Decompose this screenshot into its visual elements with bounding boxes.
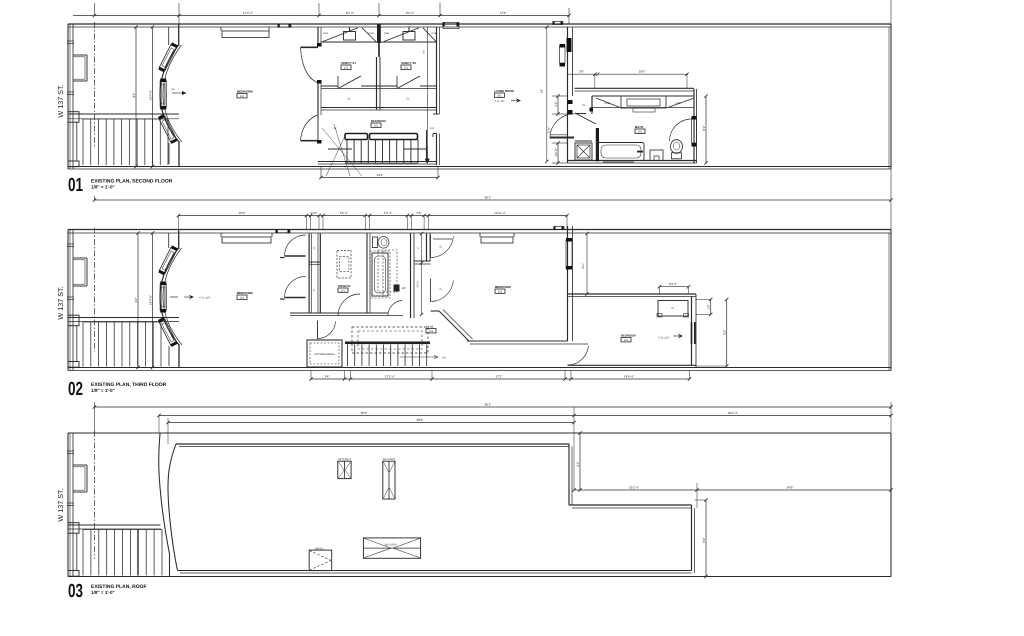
plan1 vanity cabinets band <box>321 41 437 43</box>
plan1 bath small cabinet <box>650 150 663 161</box>
plan2 pier mark top wall <box>554 227 564 230</box>
plan2 right lot wall <box>890 230 892 371</box>
plan2 hall lower wall <box>467 340 568 342</box>
plan1 CL wall lower <box>321 107 437 109</box>
svg-text:50 ½″: 50 ½″ <box>548 127 551 133</box>
bay lower window <box>158 317 178 347</box>
plan1 stair right wall <box>426 130 428 162</box>
plan2 stair dashed box <box>352 327 428 353</box>
plan1 bath closet CL <box>591 96 593 110</box>
svg-text:BATH: BATH <box>635 125 643 129</box>
plan2 stair arrow DN <box>400 356 438 358</box>
svg-text:C.A. 110°: C.A. 110° <box>659 337 670 340</box>
plan1 bottom dim 14'2 <box>321 177 438 179</box>
svg-text:UP: UP <box>333 127 337 130</box>
svg-text:CAB: CAB <box>604 102 609 105</box>
plan3 dim 50'6 lines <box>159 415 891 417</box>
plan3 right lot wall <box>890 433 892 577</box>
plan2 rear wall main house <box>567 226 569 341</box>
plan2 mid wall <box>290 312 388 314</box>
compass arrow <box>511 98 521 102</box>
bay window curved front <box>160 248 179 345</box>
svg-text:CL: CL <box>347 98 351 101</box>
plan2 window recess in top wall <box>220 233 222 237</box>
svg-text:56′1″: 56′1″ <box>485 195 493 199</box>
bay upper window <box>158 42 178 72</box>
svg-text:CAB: CAB <box>323 32 328 35</box>
plan2 interior stair treads <box>347 345 349 367</box>
plan1 CL diagonal doors <box>338 76 361 89</box>
bay centre window <box>160 284 166 310</box>
property dash-dot line <box>94 228 96 352</box>
plan1 dim extension lines <box>94 3 96 16</box>
plan1 rear wall of main house <box>567 27 569 96</box>
plan3 lot bottom line <box>68 576 891 578</box>
svg-text:3′6″: 3′6″ <box>579 70 585 74</box>
svg-text:SKYLIGHT: SKYLIGHT <box>385 543 398 546</box>
street wall (left facade) double line <box>67 24 69 169</box>
svg-text:LIVING ROOM: LIVING ROOM <box>494 89 514 93</box>
svg-text:CL 03: CL 03 <box>426 326 434 329</box>
svg-text:BEDROOM: BEDROOM <box>495 285 511 289</box>
stair newel box top <box>68 523 79 534</box>
svg-text:BEDROOM: BEDROOM <box>237 291 253 295</box>
plan2 vertical dim 15'4 1/2 <box>152 233 154 368</box>
svg-text:ROOM 02: ROOM 02 <box>338 284 351 288</box>
svg-text:01: 01 <box>68 175 83 196</box>
plan2 tub dashed surround <box>370 251 390 298</box>
plan2 wall between closets <box>414 260 431 262</box>
plan1 bottom wall centre <box>318 161 437 163</box>
plan2 closet divider <box>309 261 320 263</box>
street wall (left facade) double line <box>67 433 69 577</box>
plan2 vertical dim 9'2 <box>137 233 139 368</box>
svg-text:1/8″ = 1′-0″: 1/8″ = 1′-0″ <box>91 388 116 393</box>
property dash-dot line <box>94 22 96 148</box>
plan1 bath top dim <box>568 73 688 75</box>
svg-text:101: 101 <box>344 67 349 70</box>
plan2 wc dashed soffit <box>382 251 384 297</box>
bay upper window <box>158 245 178 275</box>
plan2 extension door arc <box>568 346 589 365</box>
svg-text:C.A. 10°: C.A. 10° <box>494 100 504 103</box>
stair left wall inner line <box>76 122 78 161</box>
property dash-dot line <box>94 431 96 559</box>
svg-text:30′4 ½″: 30′4 ½″ <box>728 411 739 415</box>
facade notch bump <box>73 54 87 56</box>
plan2 bottom lot line <box>68 367 891 369</box>
plan2 dim 8'2 extension <box>726 299 728 366</box>
svg-text:W 137 ST.: W 137 ST. <box>56 488 65 521</box>
compass arrow <box>184 295 194 299</box>
plan2 dim extension depth <box>586 234 588 295</box>
svg-text:15′6″: 15′6″ <box>239 211 247 215</box>
svg-text:101: 101 <box>429 330 434 333</box>
svg-text:VANITY 01: VANITY 01 <box>341 61 356 65</box>
plan2 closet door upper <box>430 235 432 259</box>
plan1 top dimension line <box>73 15 569 17</box>
svg-text:DN: DN <box>430 127 434 130</box>
plan1 vertical dim 9'2 <box>135 27 137 167</box>
plan2 stair hall wall <box>68 317 179 319</box>
svg-text:8′2″: 8′2″ <box>702 125 706 131</box>
plan1 wall right of vanities <box>436 27 438 114</box>
plan1 interior stair handrail bars <box>345 134 368 140</box>
plan2 door arc kitchen <box>317 321 319 340</box>
svg-text:VANITY 02: VANITY 02 <box>401 61 416 65</box>
plan1 stair hall wall <box>68 113 179 115</box>
plan3 dim 56'1 top <box>95 406 892 408</box>
svg-text:16′6″: 16′6″ <box>639 70 647 74</box>
svg-text:17′2″: 17′2″ <box>496 374 504 378</box>
plan1 window recess in top wall <box>220 27 222 31</box>
svg-text:02: 02 <box>68 379 83 400</box>
plan2 wc tag <box>394 285 400 292</box>
plan1 living room dim line <box>546 27 548 162</box>
svg-text:50′6″: 50′6″ <box>417 418 425 422</box>
svg-text:101: 101 <box>374 125 379 128</box>
svg-text:19′2 ½″: 19′2 ½″ <box>629 485 640 489</box>
plan2 extension right wall <box>691 297 693 366</box>
svg-text:4′4 ½″: 4′4 ½″ <box>384 211 393 215</box>
svg-text:BEDROOM: BEDROOM <box>621 334 636 338</box>
plan1 bath closet door jamb <box>568 100 573 104</box>
svg-text:14′11 ½″: 14′11 ½″ <box>494 211 507 215</box>
plan3 roof edge curve <box>168 444 178 571</box>
svg-text:DN: DN <box>442 357 446 360</box>
facade notch bump <box>73 257 87 259</box>
plan1 bath cabinet wall <box>592 95 694 97</box>
svg-text:8′10″: 8′10″ <box>582 263 585 269</box>
plan2 overall dim 56'1 <box>95 199 892 201</box>
svg-text:1′10″: 1′10″ <box>311 211 319 215</box>
svg-text:15′4 ½″: 15′4 ½″ <box>148 294 152 305</box>
plan1 bath door diagonal <box>575 113 596 124</box>
plan2 door leaf+arc lower left room <box>285 297 306 299</box>
plan1 bath right vertical dim 8'2 <box>705 96 707 163</box>
plan2 rear extension top wall <box>568 293 697 295</box>
svg-text:2′2″: 2′2″ <box>554 101 558 107</box>
plan1 door arc hall lower <box>301 140 319 142</box>
plan2 dim above closet bump <box>660 286 689 288</box>
plan3 lot top line <box>68 432 891 434</box>
svg-text:1/8″ = 1′-0″: 1/8″ = 1′-0″ <box>91 590 116 595</box>
plan1 top wall double line <box>68 23 891 25</box>
plan2 dim right of bump 1'4 <box>710 299 712 314</box>
facade sill marks <box>67 40 74 42</box>
svg-text:101: 101 <box>404 67 409 70</box>
plan1 stair leader lines <box>322 128 362 176</box>
svg-text:4′6 ½″: 4′6 ½″ <box>340 211 349 215</box>
plan1 shower <box>575 143 592 160</box>
svg-text:17′2 ½″: 17′2 ½″ <box>385 374 396 378</box>
svg-text:CL: CL <box>582 104 586 107</box>
plan3 big skylight <box>363 538 420 558</box>
plan1 bottom lot line <box>68 166 891 168</box>
plan1 vanity dim line <box>427 27 429 162</box>
bay window curved front <box>160 45 179 142</box>
plan1 bath outer walls <box>575 87 694 89</box>
svg-text:W 137 ST.: W 137 ST. <box>56 84 65 117</box>
plan2 door arc into room02 <box>338 294 360 316</box>
plan1 bath centre cabinet <box>621 96 666 108</box>
svg-text:50′6″: 50′6″ <box>361 411 369 415</box>
plan3 main roof top edge <box>176 443 569 445</box>
plan1 rear wall window <box>560 46 566 63</box>
plan1 toilet <box>671 140 683 154</box>
stair left wall inner line <box>76 326 78 362</box>
plan2 diagonal corner wall <box>439 311 469 341</box>
plan2 closet column walls <box>308 234 310 314</box>
svg-text:101: 101 <box>341 290 346 293</box>
svg-text:5′4 ½″: 5′4 ½″ <box>417 280 420 287</box>
svg-text:9′2″: 9′2″ <box>134 297 138 303</box>
plan3 main roof bottom edge <box>178 570 692 572</box>
plan1 bathtub <box>598 143 644 161</box>
svg-text:56′1″: 56′1″ <box>485 402 493 406</box>
svg-text:15′4 ½″: 15′4 ½″ <box>148 89 152 100</box>
plan1 wall bedroom/vanity <box>317 27 319 46</box>
plan2 extension window <box>691 322 693 344</box>
svg-text:03: 03 <box>68 581 83 602</box>
plan1 vertical dim 15'4 1/2 <box>152 27 154 167</box>
svg-text:17′6″: 17′6″ <box>500 11 508 15</box>
plan1 front wall above bay <box>178 24 180 46</box>
svg-text:101: 101 <box>638 131 643 134</box>
svg-text:3′4 ½″: 3′4 ½″ <box>669 282 678 286</box>
plan1 stair down arrow <box>426 146 428 161</box>
plan3 dim 8'2 vertical <box>705 500 707 577</box>
svg-text:BEDROOM: BEDROOM <box>371 119 386 123</box>
svg-text:101: 101 <box>497 95 502 98</box>
plan2 door arc mid wall wc <box>388 301 402 316</box>
stair newel box bottom <box>68 161 79 167</box>
plan1 interior stair treads <box>346 140 348 164</box>
svg-text:101: 101 <box>240 95 245 98</box>
stair treads <box>82 322 84 367</box>
svg-text:C.A. 110°: C.A. 110° <box>200 297 211 300</box>
plan1 pier mark top wall right <box>553 22 563 25</box>
plan2 kitchen box <box>307 340 342 367</box>
plan2 toilet top <box>373 237 378 248</box>
plan3 stair hall wall <box>68 524 161 526</box>
plan2 vertical dim line wc <box>421 234 423 315</box>
svg-text:8′2″: 8′2″ <box>702 537 706 543</box>
svg-text:CAB: CAB <box>369 32 374 35</box>
compass arrow <box>673 334 683 338</box>
plan1 bath right door arc <box>670 119 691 141</box>
plan2 front wall below bay <box>178 344 180 368</box>
plan2 wc walls <box>366 233 368 313</box>
stair left wall inner line <box>76 533 78 570</box>
plan2 door mark top wall <box>276 230 290 233</box>
plan3 rear dim line 19'2 / 24'9 <box>574 489 891 491</box>
plan2 rear wall window <box>566 240 572 268</box>
svg-text:17′4 ½″: 17′4 ½″ <box>243 11 254 15</box>
svg-text:14′6 ½″: 14′6 ½″ <box>624 374 635 378</box>
svg-text:101: 101 <box>498 291 503 294</box>
plan2 interior stair rail bar <box>345 342 430 345</box>
svg-text:9′6″: 9′6″ <box>541 89 544 93</box>
svg-text:14′2″: 14′2″ <box>377 173 385 177</box>
stair newel box top <box>68 112 79 123</box>
plan3 facade outer curve <box>159 434 170 577</box>
svg-text:BEDROOM: BEDROOM <box>237 90 253 94</box>
svg-text:KITCHEN/DINING: KITCHEN/DINING <box>314 353 334 356</box>
svg-text:CL: CL <box>406 98 410 101</box>
svg-text:WC: WC <box>402 287 406 290</box>
facade sill marks <box>67 450 74 452</box>
svg-text:8′2″: 8′2″ <box>723 329 727 335</box>
plan1 door arc vanity1 upper <box>301 46 319 48</box>
plan1 stair side rails <box>328 148 352 150</box>
facade sill marks <box>67 243 74 245</box>
svg-text:9′4 ½″: 9′4 ½″ <box>406 11 415 15</box>
svg-text:CAB: CAB <box>675 102 680 105</box>
plan2 front wall above bay <box>178 230 180 250</box>
plan3 dim 6'2 vertical <box>579 433 581 490</box>
plan1 bath window right wall <box>692 118 697 143</box>
plan1 plumbing wall stub <box>596 128 599 161</box>
svg-text:Aw: Aw <box>171 88 174 91</box>
plan2 window recess right part <box>479 233 481 237</box>
plan1 front wall below bay <box>178 141 180 167</box>
svg-text:CAB: CAB <box>432 32 437 35</box>
stair treads <box>82 530 84 576</box>
bay centre window <box>160 81 166 107</box>
svg-text:1′4″: 1′4″ <box>707 304 711 310</box>
plan2 closet door lower <box>430 279 432 303</box>
plan2 wall right of wc rooms <box>426 233 428 261</box>
plan1 right lot wall <box>890 24 892 169</box>
bay lower window <box>158 114 178 144</box>
stair newel box bottom <box>68 571 79 577</box>
stair newel box bottom <box>68 362 79 368</box>
svg-text:9′2″: 9′2″ <box>132 92 136 98</box>
svg-text:2′6″: 2′6″ <box>416 211 422 215</box>
plan1 hall door arc into bath <box>550 114 574 138</box>
street wall (left facade) double line <box>67 230 69 371</box>
svg-text:101: 101 <box>240 297 245 300</box>
svg-text:9′4 ½″: 9′4 ½″ <box>346 11 355 15</box>
plan1 top wall window mark right <box>443 23 459 29</box>
svg-text:W 137 ST.: W 137 ST. <box>56 286 65 319</box>
plan2 top wall double line <box>68 229 891 231</box>
facade notch bump <box>73 464 87 466</box>
plan2 extension closet bump <box>658 301 688 317</box>
plan1 bath left dims <box>557 96 559 114</box>
svg-text:2′6 ½″: 2′6 ½″ <box>554 147 558 156</box>
plan1 door mark on top wall <box>278 24 291 27</box>
svg-text:101: 101 <box>624 339 629 342</box>
plan1 compass arrow <box>172 91 187 95</box>
svg-text:24′9″: 24′9″ <box>787 485 795 489</box>
plan2 door leaf+arc upper left room <box>285 255 306 257</box>
svg-text:3′4″: 3′4″ <box>324 374 330 378</box>
svg-text:2′2″: 2′2″ <box>423 50 426 54</box>
plan2 bottom dims <box>311 378 690 380</box>
stair newel box top <box>68 315 79 326</box>
plan2 linen dashed box <box>337 250 351 278</box>
plan2 second dim line <box>178 215 567 217</box>
plan3 roof step right <box>568 444 570 505</box>
plan1 vanity centre wall solid <box>377 25 381 44</box>
plan1 CL wall upper <box>321 85 338 87</box>
svg-text:CAB: CAB <box>384 32 389 35</box>
svg-text:6′2″: 6′2″ <box>576 461 580 467</box>
svg-text:1/8″ = 1′-0″: 1/8″ = 1′-0″ <box>91 185 116 190</box>
stair treads <box>82 119 84 165</box>
plan2 extension bottom wall <box>568 364 697 366</box>
plan2 bathtub vertical <box>372 253 388 296</box>
